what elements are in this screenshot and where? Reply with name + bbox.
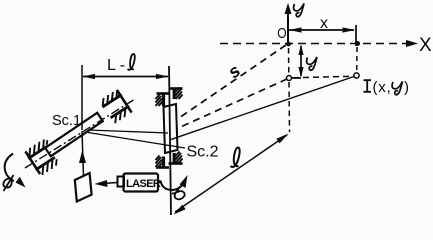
origin O <box>286 42 291 47</box>
phi rotation arc <box>5 154 14 182</box>
mirror <box>75 173 92 202</box>
label y (axis) <box>294 4 304 17</box>
laser aperture <box>118 177 125 187</box>
dashed drop from x tick to I <box>356 47 358 72</box>
svg-text:O: O <box>277 25 286 42</box>
Sc.2 upper support <box>156 88 183 107</box>
Sc.2 lower support <box>156 152 183 168</box>
label l (script) <box>231 147 240 166</box>
Sc.1 scale rectangle <box>45 113 103 156</box>
node I <box>354 73 359 78</box>
svg-text:Sc.1: Sc.1 <box>52 113 81 129</box>
laser box <box>124 174 159 192</box>
svg-text:X: X <box>419 35 432 56</box>
label theta <box>172 190 185 200</box>
beam Sc.1 to Sc.2 upper <box>88 130 168 133</box>
y dimension <box>290 46 301 78</box>
x-axis (dashed) <box>220 43 411 45</box>
Sc.2 scale rectangle <box>164 104 178 153</box>
Sc.1 upper-right support <box>99 89 133 125</box>
label y (dimension) <box>307 57 317 70</box>
svg-text:): ) <box>404 79 409 96</box>
node at x on axis <box>355 41 360 46</box>
theta rotation arc <box>161 181 185 191</box>
svg-text:x: x <box>320 15 328 32</box>
beam vertical (mirror to Sc.1) <box>82 131 84 176</box>
beam Sc.2 to I <box>170 77 354 140</box>
x dimension <box>289 25 356 46</box>
svg-text:L -: L - <box>107 57 125 74</box>
arrow laser to mirror <box>103 183 117 184</box>
dashed line node to Sc.2 <box>176 79 287 129</box>
label phi <box>3 175 13 191</box>
dimension l arrow <box>175 135 287 212</box>
Sc.1 lower-left support <box>24 138 62 177</box>
dashed line s: origin to Sc.2 <box>176 45 286 120</box>
beam Sc.1 to Sc.2 lower <box>88 133 185 149</box>
label I(x,y) <box>364 80 372 92</box>
node below origin <box>287 76 292 81</box>
dashed vertical below origin <box>289 48 290 132</box>
svg-text:(x,: (x, <box>373 79 392 96</box>
Sc.1 axis (dash-dot) <box>25 99 135 168</box>
svg-text:Sc.2: Sc.2 <box>187 144 219 161</box>
Sc.2 rail (vertical line) <box>169 66 171 215</box>
y-axis <box>287 10 289 44</box>
svg-text:LASER: LASER <box>126 178 161 190</box>
dimension L-l extension + line <box>81 65 83 130</box>
dashed line node to I <box>293 76 352 78</box>
